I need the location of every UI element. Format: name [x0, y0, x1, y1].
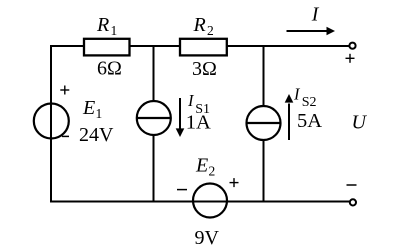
- wire top-right horizontal: [226, 45, 350, 47]
- svg-text:U: U: [352, 112, 368, 134]
- minus sign E1: [62, 135, 69, 137]
- svg-text:I: I: [311, 4, 320, 26]
- wire bottom horizontal: [50, 201, 350, 203]
- svg-text:1A: 1A: [186, 111, 211, 133]
- svg-text:5A: 5A: [297, 110, 322, 132]
- terminal bottom-right: [350, 199, 356, 205]
- svg-text:2: 2: [207, 23, 214, 38]
- current source IS2: [247, 106, 281, 140]
- svg-text:I: I: [293, 84, 301, 103]
- wire IS1 branch upper: [153, 45, 155, 102]
- svg-text:E: E: [195, 155, 208, 177]
- svg-text:24V: 24V: [79, 124, 114, 146]
- wire IS2 branch lower: [263, 140, 265, 203]
- plus sign E1: [60, 86, 69, 95]
- svg-text:6Ω: 6Ω: [97, 58, 122, 80]
- resistor R2: [180, 39, 227, 56]
- svg-text:R: R: [193, 14, 206, 36]
- arrow IS1 down: [176, 98, 185, 137]
- svg-text:3Ω: 3Ω: [192, 58, 217, 80]
- resistor R1: [84, 39, 130, 56]
- svg-text:R: R: [96, 14, 109, 36]
- wire left vertical: [50, 45, 52, 203]
- wire IS1 branch lower: [153, 135, 155, 203]
- minus sign bottom terminal: [347, 184, 357, 186]
- svg-text:1: 1: [111, 23, 118, 38]
- voltage source E1: [34, 104, 69, 139]
- svg-text:9V: 9V: [195, 227, 220, 246]
- voltage source E2: [193, 184, 227, 218]
- svg-text:S2: S2: [302, 95, 317, 110]
- current source IS1: [137, 101, 171, 135]
- svg-text:E: E: [82, 97, 95, 119]
- plus sign top terminal: [346, 54, 355, 63]
- svg-text:1: 1: [96, 106, 103, 121]
- wire top-left horizontal: [50, 45, 85, 47]
- wire top-middle horizontal: [129, 45, 181, 47]
- wire IS2 branch upper: [263, 45, 265, 107]
- terminal top-right: [349, 43, 355, 49]
- arrow IS2 up: [285, 94, 294, 140]
- current arrow I: [287, 27, 336, 35]
- minus sign E2: [177, 189, 187, 191]
- plus sign E2: [230, 178, 239, 187]
- svg-text:I: I: [187, 91, 195, 110]
- svg-text:2: 2: [209, 164, 216, 179]
